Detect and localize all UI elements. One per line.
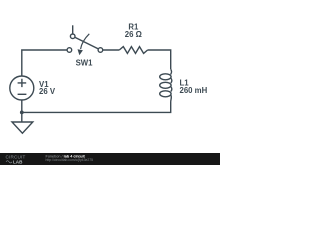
wire xyxy=(21,100,23,122)
voltage source V1 xyxy=(10,76,34,100)
inductor L1 xyxy=(160,69,172,101)
wire xyxy=(22,102,171,113)
node junction xyxy=(20,111,24,115)
svg-text:SW1: SW1 xyxy=(76,58,94,67)
wire xyxy=(103,49,120,51)
switch SW1 xyxy=(67,25,103,52)
CircuitLab logo xyxy=(6,154,26,164)
svg-text:http://circuitlab.com/c/jfy43e: http://circuitlab.com/c/jfy43e275 xyxy=(46,158,94,162)
svg-text:260 mH: 260 mH xyxy=(180,86,208,95)
switch arrowhead xyxy=(78,49,83,55)
svg-text:LAB: LAB xyxy=(13,159,23,164)
wire xyxy=(22,50,67,76)
ground xyxy=(12,122,33,133)
wire xyxy=(148,50,171,69)
svg-text:26 Ω: 26 Ω xyxy=(125,30,142,39)
resistor R1 xyxy=(119,47,147,54)
footer bar xyxy=(0,153,220,165)
svg-text:26 V: 26 V xyxy=(39,87,56,96)
